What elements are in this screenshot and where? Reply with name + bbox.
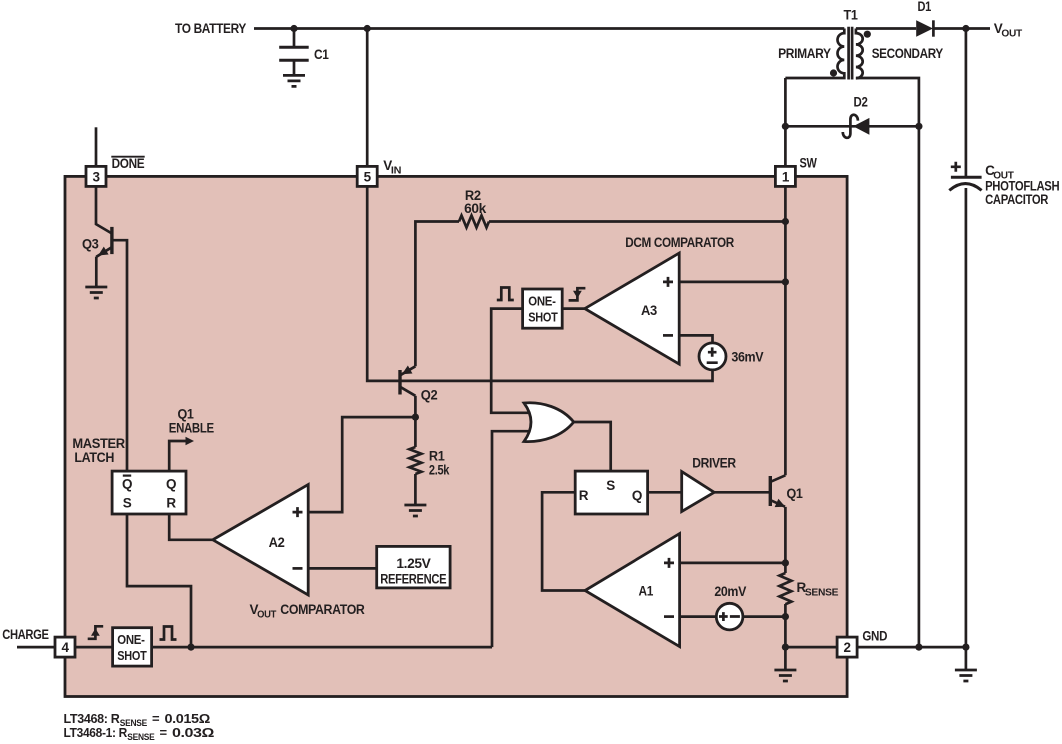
A2 plus mark <box>293 507 303 517</box>
svg-text:R: R <box>579 488 589 503</box>
svg-text:Q1: Q1 <box>178 407 195 422</box>
svg-text:3: 3 <box>92 169 100 184</box>
resistor RSENSE <box>779 573 791 604</box>
svg-text:CHARGE: CHARGE <box>2 627 49 642</box>
reference box <box>377 546 450 588</box>
wire pin4 to CHARGE one-shot <box>75 646 113 649</box>
wire VIN drop to pin 5 <box>366 29 369 167</box>
wire Q1 emitter to RSENSE <box>784 507 787 573</box>
A3 minus mark <box>663 334 673 337</box>
wire DCM one-shot input to OR gate top input <box>491 309 529 413</box>
A1 minus mark <box>664 615 674 618</box>
junction dot A3 SW <box>782 278 789 285</box>
wire latch Q to driver <box>648 491 682 494</box>
svg-text:Q2: Q2 <box>421 388 438 403</box>
svg-text:1: 1 <box>782 169 790 184</box>
wire secondary top to D1 anode <box>856 27 916 30</box>
A2 minus mark <box>293 567 303 570</box>
transistor Q3 <box>110 227 113 254</box>
svg-text:Q1: Q1 <box>787 486 804 501</box>
svg-text:2.5k: 2.5k <box>429 463 450 478</box>
svg-text:36mV: 36mV <box>731 350 763 365</box>
falling edge symbol DCM <box>569 288 586 300</box>
svg-text:=: = <box>160 725 168 740</box>
svg-text:LATCH: LATCH <box>74 450 114 465</box>
wire primary bottom to SW pin 1 <box>784 78 787 166</box>
svg-text:S: S <box>123 496 132 511</box>
svg-text:D1: D1 <box>918 0 932 14</box>
junction dot D2 right <box>915 123 922 130</box>
svg-text:CAPACITOR: CAPACITOR <box>985 192 1049 207</box>
wire DONE pin stub <box>95 127 98 166</box>
secondary phase dot <box>864 31 871 38</box>
svg-text:Q: Q <box>166 477 176 492</box>
driver buffer triangle <box>682 472 715 512</box>
junction dot R1 node <box>412 414 419 421</box>
svg-text:DCM COMPARATOR: DCM COMPARATOR <box>625 235 734 250</box>
wire VIN internal run to Q2 base and 36mV source <box>367 186 712 381</box>
junction dot RSENSE bottom <box>782 613 789 620</box>
svg-text:Q: Q <box>632 488 642 503</box>
SR latch box <box>575 471 647 514</box>
svg-text:5: 5 <box>364 169 372 184</box>
svg-text:Q: Q <box>122 477 132 492</box>
resistor R2 <box>459 216 489 228</box>
ground right output <box>955 670 977 681</box>
wire OR output to latch S input <box>574 422 611 471</box>
junction dot CHARGE node <box>187 644 194 651</box>
one-shot box CHARGE <box>113 628 152 666</box>
transformer T1 secondary winding <box>856 29 863 79</box>
diode D2 <box>853 118 869 135</box>
svg-text:T1: T1 <box>844 8 859 23</box>
svg-text:REFERENCE: REFERENCE <box>380 572 446 587</box>
wire secondary bottom down to ground rail <box>856 78 919 647</box>
svg-text:MASTER: MASTER <box>72 436 125 451</box>
junction dot D2 left <box>782 123 789 130</box>
svg-text:GND: GND <box>862 629 887 644</box>
svg-text:60k: 60k <box>464 201 487 216</box>
svg-text:ENABLE: ENABLE <box>169 420 214 435</box>
wire battery rail <box>254 27 844 30</box>
wire A2 minus input to reference <box>308 567 377 570</box>
svg-text:SHOT: SHOT <box>117 648 147 663</box>
wire SW pin 1 down to Q1 collector <box>784 186 787 475</box>
svg-text:1.25V: 1.25V <box>396 556 430 571</box>
svg-text:DRIVER: DRIVER <box>692 456 736 471</box>
transistor Q1 <box>769 476 772 506</box>
A1 plus mark <box>664 558 674 568</box>
junction dot ground rail COUT <box>962 644 969 651</box>
wire VOUT drop to COUT <box>965 29 968 177</box>
primary phase dot <box>830 69 837 76</box>
wire C1 top stub <box>293 29 296 48</box>
36mV source <box>699 343 726 370</box>
svg-text:DONE: DONE <box>112 156 145 171</box>
wire 20mV source to RSENSE bottom <box>743 615 785 618</box>
Q1 enable arrowhead <box>186 437 195 445</box>
wire A3 output to DCM one-shot <box>562 307 585 310</box>
svg-text:LT3468-1: R: LT3468-1: R <box>64 725 128 740</box>
20mV source <box>716 603 743 630</box>
junction dot R2 SW <box>782 218 789 225</box>
ground below C1 <box>283 75 305 86</box>
ground below Q3 <box>85 287 107 298</box>
capacitor C1 <box>279 47 309 60</box>
OR gate <box>524 403 574 442</box>
svg-text:Q3: Q3 <box>82 237 99 252</box>
junction dot ground node <box>782 644 789 651</box>
svg-text:SHOT: SHOT <box>528 309 558 324</box>
svg-text:OUT: OUT <box>1001 29 1022 40</box>
svg-text:ONE-: ONE- <box>528 293 555 308</box>
svg-text:20mV: 20mV <box>714 584 746 599</box>
junction dot ground rail D2 <box>915 644 922 651</box>
wire A1 output to latch R input <box>542 492 585 590</box>
wire R2 right to SW line <box>489 220 785 223</box>
wire COUT bottom to ground rail <box>965 188 968 647</box>
A3 plus mark <box>663 277 673 287</box>
svg-text:A1: A1 <box>639 584 654 599</box>
svg-text:2: 2 <box>844 640 851 655</box>
svg-text:0.015Ω: 0.015Ω <box>165 711 210 726</box>
ground below R1 <box>404 505 426 516</box>
wire D2 rail <box>785 125 919 128</box>
transformer T1 core <box>849 27 853 80</box>
wire A2 plus input to R1 node <box>308 417 415 512</box>
wire D1 cathode to VOUT <box>933 27 990 30</box>
comparator A1 <box>585 534 680 647</box>
wire ground rail pin2 right <box>857 646 966 649</box>
pin 1 box <box>775 166 795 186</box>
wire master latch S from CHARGE node <box>127 514 191 647</box>
wire right ground stub <box>965 647 968 670</box>
ground below RSENSE node <box>774 670 796 681</box>
transistor Q2 <box>398 370 401 395</box>
pulse symbol DCM one-shot <box>497 288 514 301</box>
one-shot box DCM <box>523 289 563 328</box>
pulse symbol CHARGE one-shot <box>160 627 177 640</box>
comparator A2 <box>213 485 308 595</box>
svg-text:LT3468: R: LT3468: R <box>64 711 121 726</box>
junction dot battery VIN <box>364 25 371 32</box>
wire Q3 base to master latch Qbar <box>112 240 127 471</box>
wire driver to Q1 base <box>714 491 770 494</box>
svg-text:R1: R1 <box>429 449 445 464</box>
svg-text:IN: IN <box>391 166 401 177</box>
diode D1 <box>916 20 933 36</box>
comparator A3 <box>585 253 679 364</box>
svg-text:PRIMARY: PRIMARY <box>778 46 831 61</box>
svg-text:A3: A3 <box>641 303 658 318</box>
master latch box <box>112 471 186 514</box>
pin 5 box <box>357 166 377 186</box>
wire ground rail pin2 left <box>785 646 837 649</box>
junction dot VOUT <box>962 25 969 32</box>
svg-text:TO BATTERY: TO BATTERY <box>175 21 246 36</box>
pin 2 box <box>837 637 857 657</box>
resistor R1 <box>409 447 421 474</box>
svg-text:S: S <box>606 478 615 493</box>
svg-text:OUT: OUT <box>257 610 276 621</box>
wire 36mV to A3 minus input <box>679 335 712 343</box>
wire master latch Q to enable arrow <box>169 441 187 471</box>
svg-text:4: 4 <box>61 640 69 655</box>
svg-text:ONE-: ONE- <box>117 632 144 647</box>
svg-text:C1: C1 <box>314 47 329 62</box>
wire R1 bottom to ground <box>414 474 417 505</box>
wire CHARGE external stub <box>17 646 55 649</box>
svg-text:D2: D2 <box>854 95 868 110</box>
svg-text:SW: SW <box>800 156 818 171</box>
svg-text:COMPARATOR: COMPARATOR <box>280 602 365 617</box>
wire master latch R from A2 output <box>169 514 213 540</box>
wire CHARGE one-shot output <box>152 646 492 649</box>
svg-text:SENSE: SENSE <box>127 732 154 743</box>
svg-text:=: = <box>152 711 160 726</box>
svg-text:R: R <box>166 496 176 511</box>
wire CHARGE one-shot riser to OR gate bottom input <box>492 431 529 647</box>
wire C1 bottom stub <box>293 61 296 76</box>
svg-text:SENSE: SENSE <box>805 588 839 599</box>
svg-text:SECONDARY: SECONDARY <box>872 46 944 61</box>
wire A3 plus input to SW line <box>679 281 785 284</box>
wire RSENSE bottom to ground node <box>784 604 787 647</box>
rising edge symbol CHARGE <box>88 626 104 639</box>
junction dot RSENSE top <box>782 559 789 566</box>
svg-text:0.03Ω: 0.03Ω <box>172 725 214 740</box>
wire A1 plus input to RSENSE top <box>680 562 786 565</box>
capacitor COUT polarized <box>951 176 982 179</box>
wire RSENSE node ground stub <box>784 647 787 670</box>
junction dot battery C1 <box>290 25 297 32</box>
pin 4 box <box>55 637 75 657</box>
wire pin3 to Q3 collector <box>96 186 112 233</box>
COUT plus sign <box>951 162 961 172</box>
svg-text:A2: A2 <box>269 535 285 550</box>
IC block LT3468 <box>65 176 847 696</box>
wire A1 minus input to 20mV source <box>680 615 717 618</box>
wire Q2 emitter riser to R2 <box>415 222 459 367</box>
wire Q2 collector to R1 <box>414 396 417 447</box>
pin 3 box <box>86 166 106 186</box>
wire Q3 emitter to ground <box>95 257 98 287</box>
transformer T1 primary winding <box>785 29 844 79</box>
